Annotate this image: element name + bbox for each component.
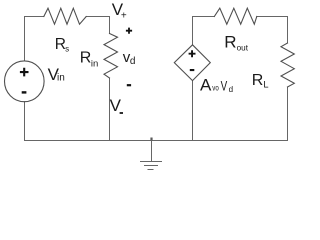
wire right branch lower: [287, 87, 289, 141]
resistor Rout zigzag: [214, 8, 256, 24]
wire junction nub at ground stem: [150, 138, 152, 141]
svg-text:out: out: [237, 43, 249, 52]
wire left branch upper: [24, 17, 26, 62]
svg-text:d: d: [130, 56, 136, 67]
resistor RL zigzag: [281, 43, 294, 87]
svg-text:in: in: [57, 73, 65, 84]
straight wires (pixel-aligned): [25, 17, 288, 170]
dependent source minus sign: [190, 69, 195, 71]
svg-text:A: A: [200, 75, 212, 94]
svg-text:R: R: [252, 72, 264, 89]
components with diagonal strokes: [5, 8, 295, 102]
wire dependent-source branch upper: [192, 17, 194, 45]
wire top-left rail left part: [25, 16, 44, 18]
wire top-right rail right part: [257, 16, 288, 18]
wire top-right rail left part: [193, 16, 215, 18]
wire bottom rail: [25, 140, 288, 142]
svg-text:V: V: [221, 78, 228, 93]
ground bar 1: [141, 161, 162, 163]
svg-text:in: in: [91, 59, 98, 70]
ground stem: [151, 141, 153, 162]
voltage source minus sign: [22, 91, 27, 93]
vd minus sign: [127, 84, 131, 86]
wire input branch upper: [109, 17, 111, 34]
wire top-left rail right part: [86, 16, 109, 18]
resistor Rin zigzag: [104, 34, 118, 79]
vd plus sign: [126, 28, 132, 34]
ground bar 3: [148, 169, 153, 171]
svg-text:d: d: [229, 85, 233, 94]
voltage source Vin circle: [5, 61, 45, 102]
svg-text:+: +: [121, 10, 127, 21]
dependent source Avo*vd diamond: [174, 45, 210, 81]
ground bar 2: [145, 165, 158, 167]
svg-text:s: s: [65, 44, 69, 53]
wire left branch lower: [24, 102, 26, 141]
voltage source plus sign: [20, 68, 29, 77]
wire dependent-source branch lower: [192, 81, 194, 141]
resistor Rs zigzag: [44, 8, 86, 24]
svg-text:L: L: [263, 79, 268, 89]
dependent source plus sign: [189, 50, 196, 57]
svg-text:R: R: [224, 32, 236, 51]
wire input branch lower: [109, 78, 111, 141]
wire right branch upper: [287, 17, 289, 44]
svg-text:vo: vo: [212, 84, 219, 93]
svg-text:V: V: [110, 96, 122, 115]
svg-text:R: R: [80, 49, 92, 66]
